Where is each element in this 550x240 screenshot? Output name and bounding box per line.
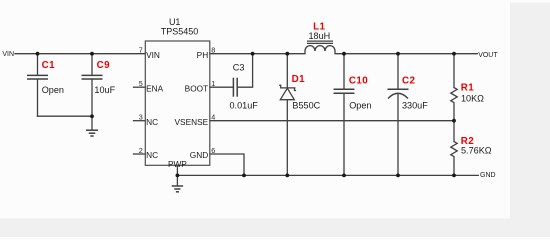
- svg-text:10KΩ: 10KΩ: [461, 93, 484, 103]
- svg-text:NC: NC: [146, 150, 158, 160]
- svg-text:4: 4: [211, 113, 215, 122]
- svg-text:GND: GND: [190, 150, 208, 160]
- svg-text:7: 7: [139, 46, 143, 55]
- svg-text:U1: U1: [169, 17, 181, 27]
- svg-text:10uF: 10uF: [94, 85, 115, 95]
- svg-text:NC: NC: [146, 117, 158, 127]
- svg-text:VOUT: VOUT: [478, 52, 498, 59]
- svg-text:GND: GND: [480, 172, 496, 179]
- svg-text:0.01uF: 0.01uF: [230, 101, 259, 111]
- svg-text:330uF: 330uF: [402, 101, 428, 111]
- svg-text:Open: Open: [349, 101, 371, 111]
- svg-text:ENA: ENA: [146, 83, 164, 93]
- svg-text:VIN: VIN: [146, 50, 160, 60]
- svg-text:D1: D1: [292, 74, 305, 85]
- svg-text:18uH: 18uH: [309, 31, 331, 41]
- svg-text:5: 5: [139, 79, 143, 88]
- svg-text:PH: PH: [197, 50, 209, 60]
- svg-text:2: 2: [139, 146, 143, 155]
- svg-text:3: 3: [139, 113, 143, 122]
- svg-text:C10: C10: [349, 75, 368, 86]
- svg-text:C3: C3: [233, 63, 245, 73]
- svg-text:1: 1: [211, 79, 215, 88]
- svg-text:B550C: B550C: [292, 101, 320, 111]
- svg-text:R1: R1: [461, 83, 474, 94]
- svg-text:C1: C1: [42, 60, 55, 71]
- svg-text:TPS5450: TPS5450: [161, 27, 199, 37]
- svg-text:6: 6: [211, 146, 215, 155]
- svg-text:PWP: PWP: [168, 159, 187, 169]
- svg-text:C9: C9: [97, 60, 110, 71]
- svg-text:VSENSE: VSENSE: [175, 117, 209, 127]
- svg-text:BOOT: BOOT: [185, 83, 209, 93]
- svg-text:Open: Open: [42, 85, 64, 95]
- svg-text:5.76KΩ: 5.76KΩ: [461, 146, 492, 156]
- svg-text:C2: C2: [402, 75, 415, 86]
- svg-text:8: 8: [211, 46, 215, 55]
- svg-text:VIN: VIN: [2, 51, 14, 58]
